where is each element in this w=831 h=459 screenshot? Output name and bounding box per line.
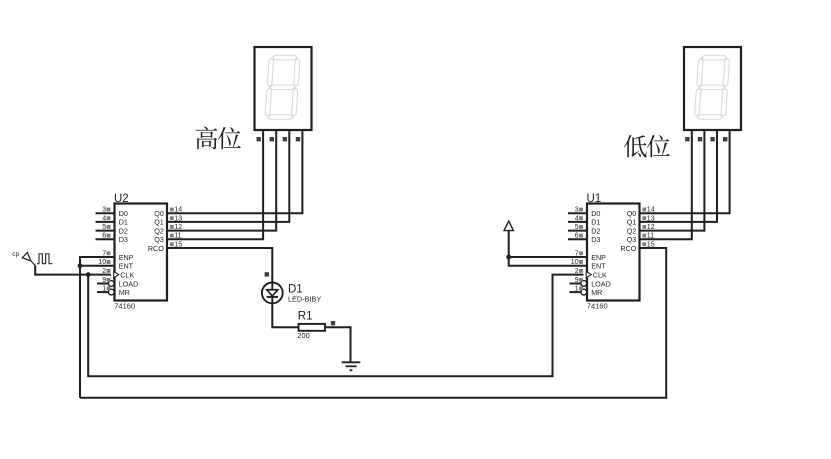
U2 pin 1 MR stub with inversion circle bbox=[97, 289, 114, 295]
wire U2 ENT (pin 10) left bbox=[80, 265, 115, 267]
svg-text:U1: U1 bbox=[587, 193, 602, 205]
svg-text:6: 6 bbox=[575, 233, 579, 240]
label 低位 (low digit) bbox=[624, 135, 670, 157]
R1 right terminal square bbox=[331, 321, 335, 325]
U1 pins 3-6 stubs (D0-D3) bbox=[568, 213, 587, 239]
svg-text:R1: R1 bbox=[298, 311, 313, 323]
svg-text:74160: 74160 bbox=[114, 302, 135, 311]
svg-text:U2: U2 bbox=[114, 193, 129, 205]
display right (low digit) pin squares bbox=[685, 137, 727, 141]
svg-text:9: 9 bbox=[575, 277, 579, 284]
counter U2 74160 body bbox=[114, 193, 167, 311]
label 高位 (high digit) bbox=[196, 127, 241, 150]
svg-text:5: 5 bbox=[575, 224, 579, 231]
7-segment display right (low digit) body bbox=[684, 47, 741, 130]
svg-text:ENP: ENP bbox=[119, 253, 134, 262]
wire U1 ENP (pin 7) bbox=[509, 256, 587, 258]
svg-text:Q3: Q3 bbox=[154, 235, 164, 244]
svg-text:3: 3 bbox=[102, 207, 106, 214]
wire D1 cathode to R1 bbox=[272, 303, 298, 327]
svg-text:D1: D1 bbox=[288, 283, 303, 295]
U1 pin 1 MR stub with inversion circle bbox=[570, 289, 587, 295]
svg-text:Q3: Q3 bbox=[627, 235, 637, 244]
clock waveform symbol bbox=[37, 254, 52, 264]
svg-text:cp: cp bbox=[12, 251, 19, 258]
svg-text:5: 5 bbox=[102, 224, 106, 231]
svg-text:200: 200 bbox=[297, 331, 310, 340]
U2 pins 3-6 stubs (D0-D3) bbox=[96, 213, 115, 239]
svg-text:D0: D0 bbox=[119, 209, 128, 218]
junction ENP/ENT tie bbox=[78, 263, 83, 268]
svg-text:3: 3 bbox=[575, 207, 579, 214]
junction at cp/CLK branch bbox=[86, 272, 91, 277]
power arrow (VCC) for U1 ENP/ENT bbox=[504, 221, 513, 257]
wire U1 Q0 (pin 14) to right display bbox=[640, 130, 730, 213]
svg-text:ENT: ENT bbox=[119, 262, 134, 271]
clock input terminal cp bbox=[12, 251, 35, 266]
LED D1 (LED-BIBY) bbox=[262, 283, 321, 304]
svg-text:9: 9 bbox=[102, 277, 106, 284]
carry rail wire U1 RCO (pin 15) to U2 ENP/ENT bbox=[80, 248, 666, 398]
svg-text:74160: 74160 bbox=[587, 302, 608, 311]
D1 anode terminal square bbox=[265, 272, 269, 276]
wire U2 RCO (pin 15) to D1 anode bbox=[167, 248, 272, 283]
U2 left pin numbers bbox=[98, 207, 110, 293]
clock rail wire to U1 CLK bbox=[88, 275, 583, 377]
svg-text:4: 4 bbox=[102, 215, 106, 222]
svg-text:D1: D1 bbox=[119, 218, 128, 227]
svg-text:D3: D3 bbox=[591, 235, 600, 244]
svg-text:CLK: CLK bbox=[120, 270, 134, 279]
wire U2 Q0 (pin 14) to left display bbox=[167, 130, 302, 213]
7-segment display left (high digit) body bbox=[255, 47, 312, 130]
U1 left pin numbers bbox=[571, 207, 583, 293]
ground symbol bbox=[342, 362, 361, 370]
svg-text:Q1: Q1 bbox=[627, 218, 637, 227]
svg-text:1: 1 bbox=[102, 286, 106, 293]
wire R1 to ground bbox=[325, 327, 351, 362]
svg-text:MR: MR bbox=[591, 288, 602, 297]
svg-text:ENT: ENT bbox=[591, 262, 606, 271]
svg-text:Q0: Q0 bbox=[154, 209, 164, 218]
svg-text:LED-BIBY: LED-BIBY bbox=[288, 295, 321, 304]
svg-text:Q2: Q2 bbox=[627, 226, 637, 235]
wire U2 Q2 (pin 12) to left display bbox=[167, 130, 276, 231]
svg-text:D2: D2 bbox=[591, 226, 600, 235]
svg-text:MR: MR bbox=[119, 288, 130, 297]
U1 pin 9 LOAD stub with inversion circle bbox=[570, 281, 587, 287]
svg-text:ENP: ENP bbox=[591, 253, 606, 262]
svg-text:4: 4 bbox=[575, 215, 579, 222]
U2 pin 9 LOAD stub with inversion circle bbox=[97, 281, 114, 287]
U2 right pin numbers bbox=[170, 207, 182, 249]
svg-text:CLK: CLK bbox=[593, 270, 607, 279]
wire U1 Q3 (pin 11) to right display bbox=[640, 130, 692, 239]
wire U2 Q1 (pin 13) to left display bbox=[167, 130, 289, 222]
svg-text:D1: D1 bbox=[591, 218, 600, 227]
svg-text:D2: D2 bbox=[119, 226, 128, 235]
svg-text:RCO: RCO bbox=[620, 244, 636, 253]
counter U1 74160 body bbox=[586, 193, 639, 311]
svg-text:D0: D0 bbox=[591, 209, 600, 218]
U1 right pin numbers bbox=[642, 207, 654, 249]
junction VCC/ENP bbox=[506, 255, 511, 260]
svg-text:D3: D3 bbox=[119, 235, 128, 244]
svg-text:6: 6 bbox=[102, 233, 106, 240]
wire U2 ENP (pin 7) left bbox=[80, 257, 115, 398]
wire U2 Q3 (pin 11) to left display bbox=[167, 130, 263, 239]
wire cp to U2 CLK (pin 2) bbox=[35, 266, 111, 275]
wire U1 ENT (pin 10) bbox=[509, 257, 587, 266]
svg-text:Q0: Q0 bbox=[627, 209, 637, 218]
resistor R1 value 200 bbox=[297, 311, 325, 341]
display left (high digit) pin squares bbox=[257, 137, 301, 141]
svg-text:Q2: Q2 bbox=[154, 226, 164, 235]
svg-text:RCO: RCO bbox=[148, 244, 164, 253]
svg-text:1: 1 bbox=[575, 286, 579, 293]
wire U1 Q1 (pin 13) to right display bbox=[640, 130, 718, 222]
svg-text:Q1: Q1 bbox=[154, 218, 164, 227]
wire U1 Q2 (pin 12) to right display bbox=[640, 130, 705, 231]
